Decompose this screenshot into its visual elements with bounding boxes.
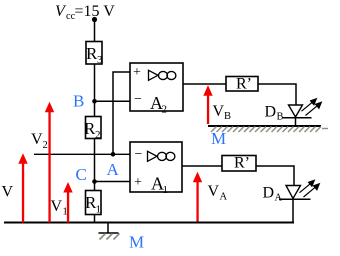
label VA <box>208 183 228 203</box>
svg-text:A: A <box>107 160 120 179</box>
svg-text:+: + <box>133 65 141 80</box>
svg-text:A: A <box>220 192 228 203</box>
ground rail (bottom) <box>4 222 294 224</box>
label V1 <box>51 198 68 218</box>
svg-text:2: 2 <box>95 129 101 141</box>
svg-text:R’: R’ <box>236 76 252 93</box>
resistor R2 <box>84 117 101 142</box>
op-amp A1 <box>130 142 182 196</box>
svg-text:−: − <box>135 147 143 162</box>
resistor R1 <box>85 191 101 216</box>
ground rail M (upper right, hatched) <box>208 126 328 132</box>
svg-text:+: + <box>134 175 142 190</box>
node Vcc dot <box>92 17 97 22</box>
wire input line V2 to A1 inverting input <box>34 153 130 155</box>
svg-text:R’: R’ <box>234 155 250 172</box>
svg-text:2: 2 <box>43 140 48 151</box>
label VB <box>213 103 232 122</box>
wire Vcc to R3 <box>94 20 96 42</box>
node B <box>92 99 97 104</box>
wire A1 output to R' <box>182 165 222 167</box>
svg-text:V: V <box>51 198 63 215</box>
svg-text:3: 3 <box>97 54 103 66</box>
wire C to A1 non-inverting input <box>95 181 131 183</box>
label DA <box>263 185 283 204</box>
svg-text:V: V <box>31 131 43 148</box>
node C <box>92 179 97 184</box>
svg-text:B: B <box>73 92 84 111</box>
wire R' to diode DB <box>258 84 296 105</box>
wire A2 output to R' <box>183 83 226 85</box>
svg-text:V: V <box>213 103 225 120</box>
svg-text:C: C <box>76 165 87 184</box>
resistor R3 <box>86 42 103 67</box>
label V2 <box>31 131 48 151</box>
voltage arrow V2 <box>45 102 54 223</box>
op-amp A2 <box>130 63 183 116</box>
wire R3 to R2 <box>94 64 96 117</box>
svg-text:1: 1 <box>96 204 102 216</box>
svg-text:−: − <box>134 92 142 107</box>
svg-text:D: D <box>263 185 275 202</box>
voltage arrow V1 <box>63 182 72 223</box>
voltage arrow VA <box>193 172 202 223</box>
svg-text:B: B <box>224 111 231 122</box>
svg-text:1: 1 <box>163 184 169 196</box>
svg-text:M: M <box>129 233 144 252</box>
wire R1 to ground rail <box>94 215 96 223</box>
wire junction A up to A2 non-inverting input <box>113 72 130 154</box>
svg-text:D: D <box>265 104 277 121</box>
label DB <box>265 104 284 123</box>
resistor R' (A channel) <box>222 155 256 172</box>
light emission arrows DA <box>300 180 320 197</box>
svg-text:A: A <box>275 193 283 204</box>
voltage arrow V <box>18 153 27 222</box>
diode DB (LED) <box>283 105 312 126</box>
light emission arrows DB <box>302 99 322 116</box>
svg-text:V: V <box>208 183 220 200</box>
resistor R' (B channel) <box>226 76 258 93</box>
diode DA (LED) <box>279 186 311 223</box>
voltage arrow VB <box>203 85 212 124</box>
svg-text:B: B <box>277 112 284 123</box>
svg-text:M: M <box>211 129 226 148</box>
node A junction dot <box>111 152 116 157</box>
svg-text:1: 1 <box>63 207 68 218</box>
wire R' to diode DA <box>256 166 294 186</box>
ground symbol M (bottom) <box>99 223 120 240</box>
label Vcc=15 V <box>55 3 115 22</box>
wire R2 to R1 through node C <box>94 139 96 191</box>
svg-text:V: V <box>2 184 14 201</box>
svg-text:2: 2 <box>162 104 168 116</box>
wire B to A2 inverting input <box>95 100 131 102</box>
